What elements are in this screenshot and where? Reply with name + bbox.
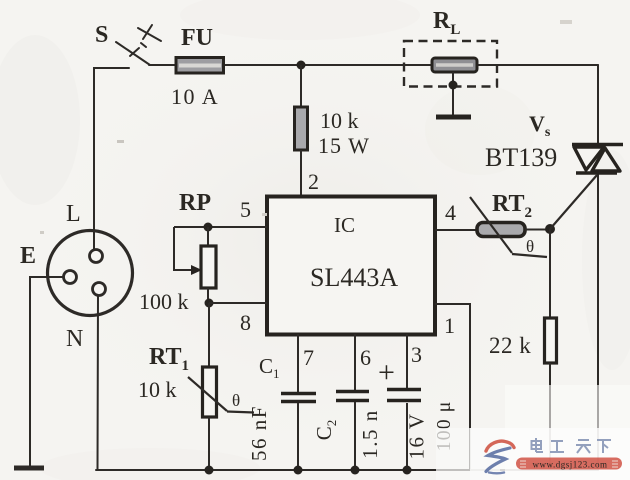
svg-text:4: 4 [445, 200, 456, 225]
svg-text:22 k: 22 k [489, 333, 531, 358]
svg-text:8: 8 [240, 310, 251, 335]
switch S blade (open) [116, 42, 150, 65]
wire: IC pin 6 lead to C2 [354, 334, 356, 390]
svg-text:1: 1 [444, 313, 455, 338]
watermark logo (red/blue S mark) [486, 441, 514, 473]
ground (earth bar of E line) [14, 466, 44, 471]
svg-text:www.dgsj123.com: www.dgsj123.com [533, 460, 608, 470]
svg-text:5: 5 [240, 197, 251, 222]
svg-text:IC: IC [334, 213, 355, 237]
wire: IC pin 5 lead with RP wiper feed [174, 226, 267, 228]
wire: C3 to bottom rail [406, 403, 408, 470]
svg-text:N: N [66, 326, 83, 352]
wire: N line from connector pin down to bottom rail [97, 295, 100, 470]
svg-text:7: 7 [303, 345, 314, 370]
thermistor RT1 body [203, 367, 217, 417]
potentiometer RP wiper arm [174, 227, 192, 270]
switch S cross mark upper stroke [138, 28, 161, 41]
wire: C1 to bottom rail [297, 403, 299, 470]
svg-text:FU: FU [181, 25, 213, 51]
svg-text:15 W: 15 W [318, 133, 370, 158]
connector pin N [93, 283, 106, 296]
switch S small dash below cross [141, 43, 146, 47]
resistor 22k body [545, 318, 557, 363]
watermark banner end marks right [612, 461, 618, 467]
wire: right rail upper segment to triac [597, 65, 599, 143]
wire: RP bottom lead [207, 288, 209, 303]
wire: C2 to bottom rail [354, 402, 356, 470]
svg-text:6: 6 [360, 345, 371, 370]
svg-text:+: + [378, 356, 395, 389]
thermistor RT1 diagonal stroke [188, 377, 227, 411]
svg-text:θ: θ [526, 237, 534, 256]
svg-text:10 k: 10 k [138, 377, 177, 402]
wire: IC pin 7 lead to C1 [297, 334, 299, 392]
wire: 22k to bottom rail [549, 363, 551, 470]
connector X1 plug circle [48, 231, 133, 316]
switch S tick on blade [130, 48, 139, 56]
load resistor RL dashed enclosure [404, 41, 497, 87]
watermark red banner [516, 458, 622, 470]
wire: IC pin 1 lead going right then down to bottom rail [435, 304, 470, 470]
watermark text xia (under) glyph [597, 440, 611, 453]
svg-text:3: 3 [411, 342, 422, 367]
watermark banner end marks left [520, 461, 526, 467]
ground (T-bar terminal of RL tap) [436, 115, 471, 120]
thermistor RT2 foot stroke [512, 254, 547, 257]
node: tap junction on RL stub [449, 81, 458, 90]
wire: right rail lower segment from triac to bottom rail [597, 174, 599, 470]
node: RT1 bottom junction [205, 466, 214, 475]
paper speck 3 [560, 20, 572, 24]
paper speck 4 [262, 213, 267, 216]
node: C2 bottom junction [351, 466, 360, 475]
thermistor RT2 diagonal stroke [470, 197, 512, 253]
wire: E line from connector pin to earth [30, 277, 64, 466]
wire: RP node down to RT1 [208, 303, 210, 367]
watermark text tian (sky) glyph [576, 440, 591, 453]
connector pin E [64, 271, 77, 284]
resistor 10k 15W body [295, 107, 308, 150]
node: C1 bottom junction [294, 466, 303, 475]
wire: top rail from fuse to right rail [223, 64, 598, 66]
resistor RL body [432, 58, 477, 72]
wire: gate junction down to 22k [549, 229, 551, 318]
op-amp/IC U1 SL443A body [267, 197, 435, 335]
potentiometer RP wiper arrowhead [191, 265, 202, 275]
svg-text:S: S [95, 22, 108, 48]
node A: junction of top rail and 10k dropper [297, 61, 306, 70]
thermistor RT1 foot stroke [227, 412, 254, 413]
wire: IC pin 3 lead to C3 [406, 334, 408, 388]
svg-text:SL443A: SL443A [310, 263, 398, 292]
svg-text:100 k: 100 k [139, 289, 189, 314]
svg-text:BT139: BT139 [485, 143, 557, 172]
wire: RL center tap stub [452, 72, 454, 115]
svg-text:θ: θ [232, 391, 240, 410]
svg-text:1.5 n: 1.5 n [358, 409, 382, 459]
potentiometer RP body [201, 246, 216, 288]
svg-text:16 V: 16 V [405, 412, 429, 459]
svg-text:56 nF: 56 nF [247, 405, 271, 461]
switch S cross mark crossing tick [143, 25, 152, 39]
watermark text dian (electric) glyph [532, 438, 544, 452]
wire: IC pin 4 lead to RT2 [435, 229, 477, 231]
node B: gate junction [545, 224, 555, 234]
node: C3 bottom junction [403, 466, 412, 475]
wire: junction down to 10k resistor [300, 65, 302, 107]
watermark text gong (work) glyph [550, 441, 564, 452]
connector pin L [90, 250, 103, 263]
node: RP top node [204, 223, 213, 232]
wire: RT1 to bottom rail [208, 417, 210, 470]
capacitor C2 plates [336, 392, 369, 401]
capacitor C3 electrolytic plates [387, 390, 421, 401]
svg-text:RP: RP [179, 190, 211, 216]
svg-text:10 k: 10 k [320, 108, 359, 133]
paper speck 1 [117, 140, 124, 143]
thermistor RT2 body [477, 223, 525, 237]
svg-text:2: 2 [308, 169, 319, 194]
wire: RT2 to gate junction [525, 229, 550, 231]
wire: switch to fuse [149, 64, 176, 66]
svg-text:10 A: 10 A [171, 84, 219, 109]
svg-text:L: L [66, 201, 81, 227]
fuse FU body [176, 58, 224, 74]
wire: bottom rail [96, 469, 598, 471]
paper speck 2 [40, 231, 44, 234]
svg-text:E: E [20, 243, 36, 269]
node: RP bottom node to pin 8 [205, 299, 214, 308]
capacitor C1 plates [281, 394, 316, 402]
wire: gate lead diagonal up to triac [550, 175, 597, 229]
wire: IC pin 8 lead [209, 302, 267, 304]
wire: 10k resistor to IC pin 2 [300, 150, 302, 196]
triac V1 BT139 symbol [572, 145, 623, 174]
watermark white backing patches [436, 385, 630, 480]
wire: left rail / L-line from switch corner down into connector [94, 68, 129, 250]
wire: RP top lead [207, 227, 209, 246]
